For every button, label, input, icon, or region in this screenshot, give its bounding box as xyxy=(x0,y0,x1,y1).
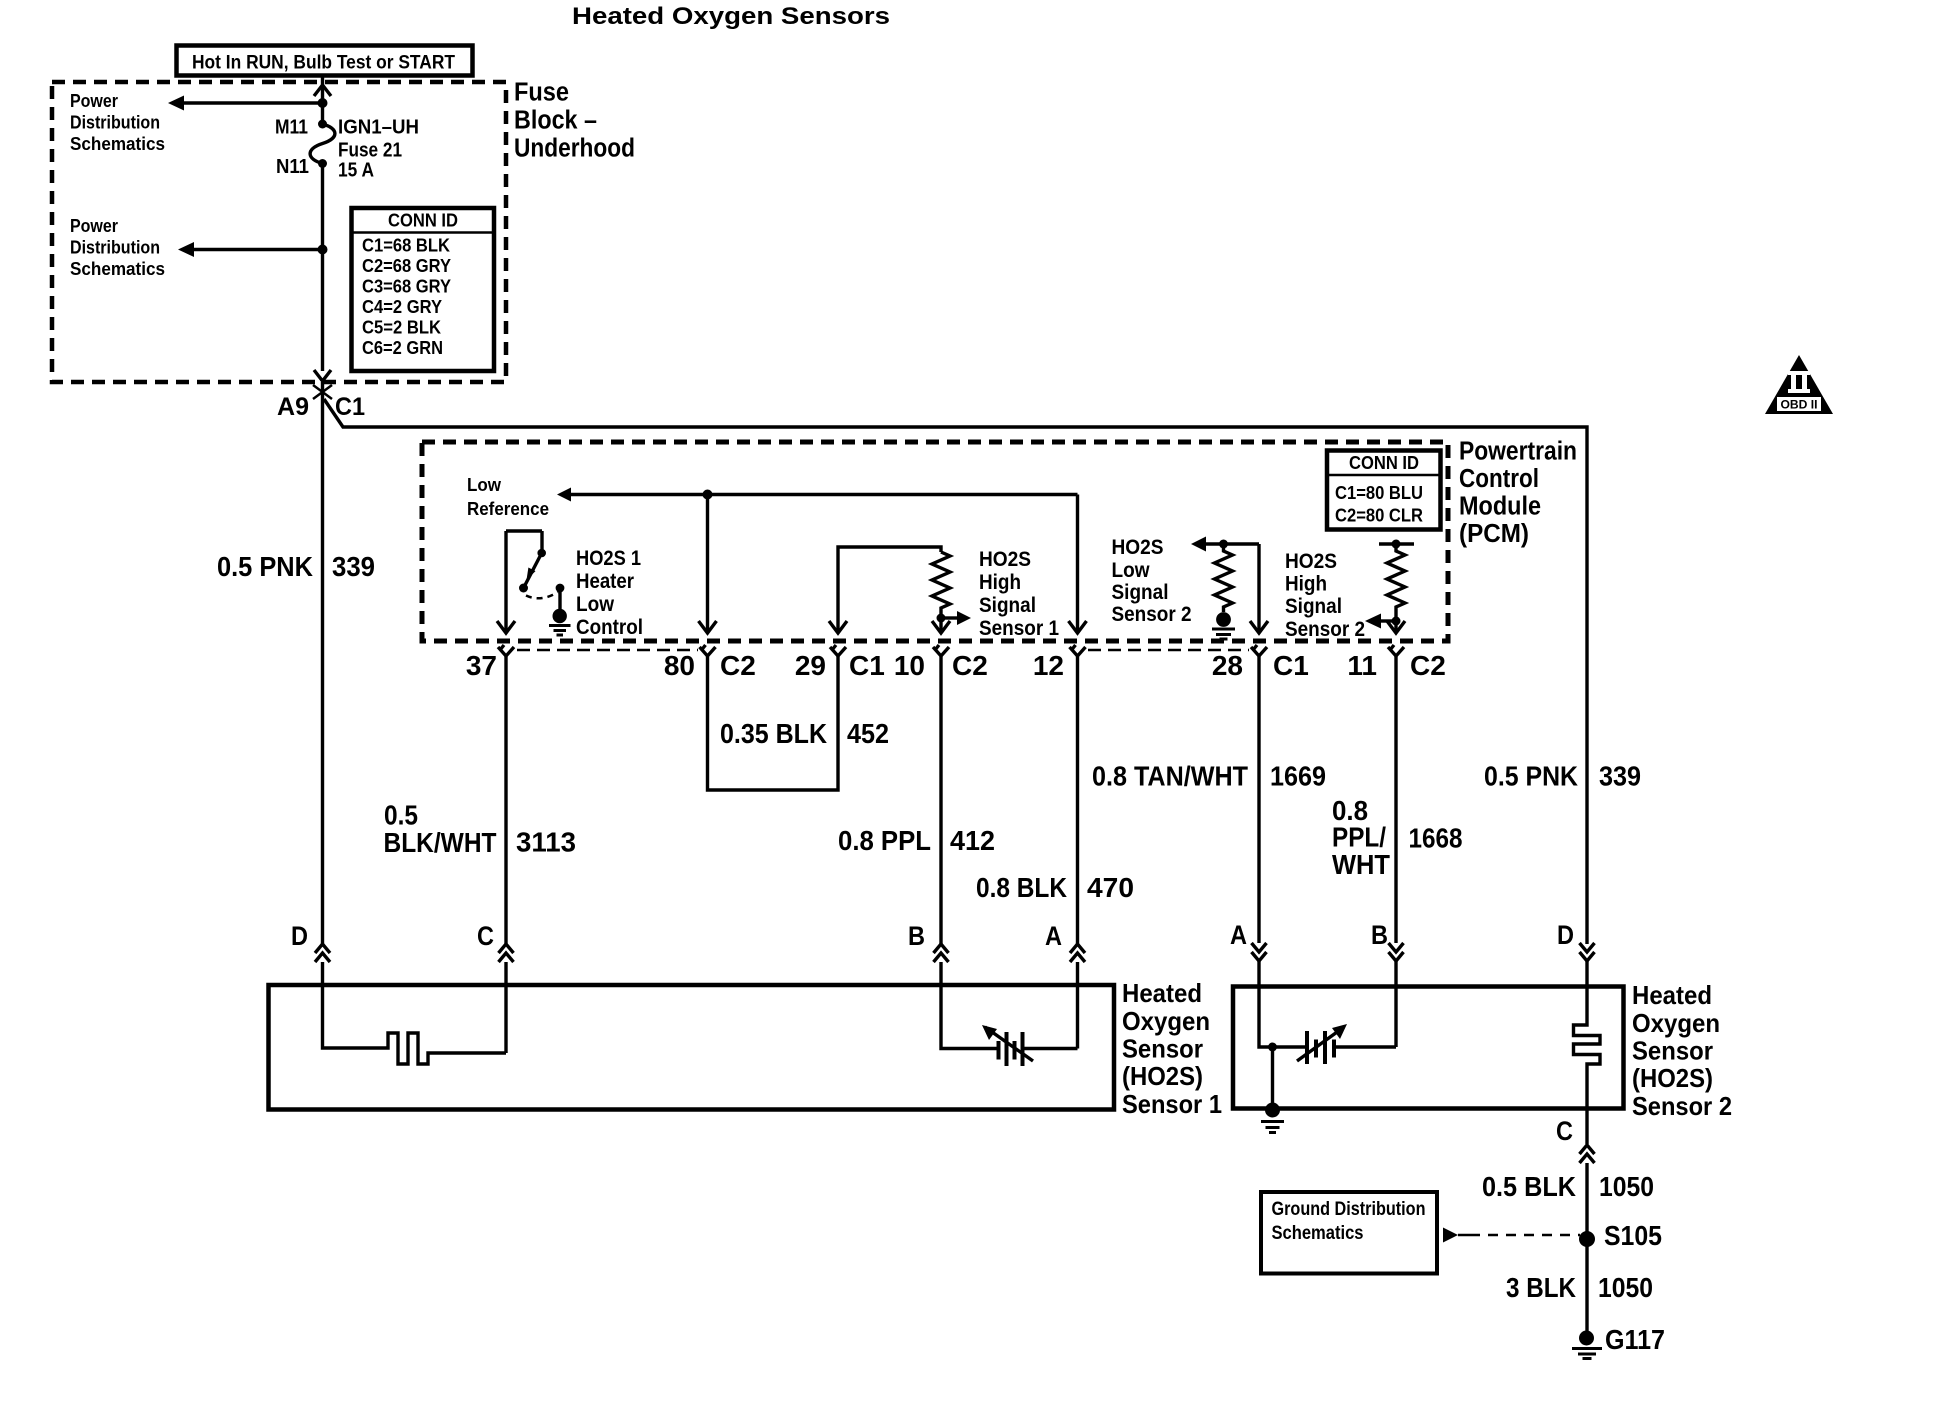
wire: battery feed from hot box into fuse block xyxy=(321,76,324,124)
svg-text:C3=68 GRY: C3=68 GRY xyxy=(362,277,451,297)
svg-text:0.5: 0.5 xyxy=(384,800,418,831)
wire: pin 10 to sensor 1 pin B xyxy=(939,656,942,944)
sensor 2 pin A inline connector chevrons xyxy=(1252,943,1267,961)
svg-text:Sensor 1: Sensor 1 xyxy=(979,617,1059,640)
node M11 xyxy=(318,120,327,129)
svg-text:Reference: Reference xyxy=(467,498,549,519)
svg-text:452: 452 xyxy=(847,718,889,749)
svg-text:CONN ID: CONN ID xyxy=(388,211,458,231)
svg-text:M11: M11 xyxy=(275,117,308,139)
node: sensor 2 internal ground junction xyxy=(1268,1043,1277,1052)
svg-text:Signal: Signal xyxy=(1112,581,1169,604)
sensor 1 pin B inline connector chevrons xyxy=(934,944,949,962)
wire: arrow to power distribution schematics (lower) xyxy=(193,248,323,251)
switch: HO2S 1 heater low control driver xyxy=(506,531,542,633)
svg-text:Heater: Heater xyxy=(576,570,634,593)
wire: pins 80-29 loop 0.35 BLK 452 xyxy=(708,656,839,790)
svg-text:0.35 BLK: 0.35 BLK xyxy=(720,718,827,749)
svg-text:Power: Power xyxy=(70,215,118,236)
wire: 0.5 PNK 339 down to sensor 1 pin D xyxy=(321,382,324,944)
connector row thin dashed lines xyxy=(517,649,698,652)
pin 28 arrow into connector xyxy=(1250,621,1268,633)
svg-text:Sensor 2: Sensor 2 xyxy=(1112,603,1192,626)
arrow: signal tap pointing left xyxy=(1380,619,1396,622)
svg-text:37: 37 xyxy=(466,650,497,681)
svg-text:High: High xyxy=(979,571,1021,594)
svg-text:C1=80 BLU: C1=80 BLU xyxy=(1335,483,1423,503)
svg-text:C: C xyxy=(477,921,494,951)
wire: pin 10 drop xyxy=(939,618,942,633)
arrow: ground distribution reference xyxy=(1443,1228,1458,1243)
svg-text:339: 339 xyxy=(1599,761,1641,792)
wire: fuse output down through fuse block xyxy=(321,164,324,372)
CONN ID table (fuse block) xyxy=(352,208,495,371)
svg-text:C2: C2 xyxy=(952,650,988,681)
wire: junction down to case ground xyxy=(1271,1047,1274,1108)
wire: sensor 2 pin C down to splice xyxy=(1585,1109,1588,1145)
svg-text:C1: C1 xyxy=(1273,650,1309,681)
svg-text:28: 28 xyxy=(1212,650,1243,681)
sensor 2 pin D inline connector chevrons xyxy=(1580,943,1595,961)
svg-text:1668: 1668 xyxy=(1409,823,1463,854)
svg-text:11: 11 xyxy=(1347,650,1377,681)
svg-text:Oxygen: Oxygen xyxy=(1122,1006,1210,1036)
svg-text:Sensor: Sensor xyxy=(1122,1034,1203,1064)
svg-text:0.8 BLK: 0.8 BLK xyxy=(976,872,1067,903)
pin 11 arrow into connector xyxy=(1387,621,1405,633)
svg-text:C2=68 GRY: C2=68 GRY xyxy=(362,256,451,276)
fuse block underhood dashed box xyxy=(52,82,506,382)
sensor 1 heater element xyxy=(323,985,507,1064)
svg-text:Low: Low xyxy=(1112,559,1151,582)
node: junction to power distribution (upper) xyxy=(318,98,328,108)
wire: low reference line with left arrow xyxy=(570,493,1078,496)
svg-text:Hot In RUN, Bulb Test or START: Hot In RUN, Bulb Test or START xyxy=(192,53,455,74)
pin 37 arrow into connector xyxy=(497,621,515,633)
svg-text:Power: Power xyxy=(70,90,118,111)
svg-text:C5=2 BLK: C5=2 BLK xyxy=(362,318,441,338)
svg-text:Schematics: Schematics xyxy=(70,258,165,279)
svg-text:Heated: Heated xyxy=(1122,978,1202,1008)
svg-text:10: 10 xyxy=(894,650,925,681)
svg-text:339: 339 xyxy=(332,551,375,582)
ground: sensor 2 case ground xyxy=(1265,1103,1280,1118)
svg-text:HO2S 1: HO2S 1 xyxy=(576,547,641,570)
sensor 1 pin D inline connector chevrons xyxy=(315,944,330,962)
svg-text:HO2S: HO2S xyxy=(1112,536,1164,559)
wire: pin 28 drop xyxy=(1257,544,1260,633)
svg-text:C1: C1 xyxy=(335,393,365,421)
svg-text:CONN ID: CONN ID xyxy=(1349,453,1419,473)
svg-text:0.5 BLK: 0.5 BLK xyxy=(1482,1171,1576,1202)
svg-text:B: B xyxy=(1371,920,1388,950)
svg-text:Block –: Block – xyxy=(514,107,597,135)
svg-text:High: High xyxy=(1285,573,1327,596)
svg-text:S105: S105 xyxy=(1604,1220,1662,1251)
svg-text:C1: C1 xyxy=(849,650,885,681)
wire: 0.5 BLK 1050 xyxy=(1585,1163,1588,1239)
svg-text:Sensor 1: Sensor 1 xyxy=(1122,1089,1222,1119)
svg-text:Sensor: Sensor xyxy=(1632,1036,1713,1066)
pin 10 Y terminal xyxy=(933,645,949,656)
svg-text:(PCM): (PCM) xyxy=(1459,520,1529,548)
sensing cell variable arrow xyxy=(1297,1027,1344,1061)
arrow: signal tap pointing right xyxy=(941,616,957,619)
svg-text:1050: 1050 xyxy=(1598,1272,1653,1303)
sensor 1 pin A inline connector chevrons xyxy=(1070,944,1085,962)
svg-text:0.5 PNK: 0.5 PNK xyxy=(217,551,313,582)
svg-text:Distribution: Distribution xyxy=(70,237,160,258)
sensor 1 sensing cell (variable battery) xyxy=(941,985,1078,1049)
svg-text:29: 29 xyxy=(795,650,826,681)
wire: pin 12 drop xyxy=(1076,495,1079,634)
wire: branch from C1 to right PNK feed xyxy=(324,399,1587,944)
svg-text:HO2S: HO2S xyxy=(979,548,1031,571)
svg-text:1050: 1050 xyxy=(1599,1171,1654,1202)
svg-text:WHT: WHT xyxy=(1332,849,1390,880)
svg-text:A: A xyxy=(1045,921,1062,951)
sensor 1 pin C inline connector chevrons xyxy=(499,944,514,962)
pin 12 arrow into connector xyxy=(1069,621,1087,633)
fuse IGN1-UH Fuse 21 15A (S-curve element) xyxy=(310,124,335,164)
svg-text:15 A: 15 A xyxy=(338,160,374,182)
svg-text:(HO2S): (HO2S) xyxy=(1122,1061,1203,1091)
CONN ID table (PCM) xyxy=(1327,451,1441,530)
svg-text:470: 470 xyxy=(1087,872,1134,903)
svg-text:C1=68 BLK: C1=68 BLK xyxy=(362,236,450,256)
svg-text:OBD II: OBD II xyxy=(1781,400,1818,412)
svg-text:Schematics: Schematics xyxy=(1272,1223,1364,1244)
switch actuation dashed curve xyxy=(526,592,558,598)
svg-text:PPL/: PPL/ xyxy=(1332,822,1386,853)
svg-text:G117: G117 xyxy=(1605,1324,1665,1355)
connector A9/C1 X symbol xyxy=(313,385,332,399)
resistor: HO2S high signal sensor 2 with top tee xyxy=(1379,542,1414,545)
wire: pin 37 to sensor 1 pin C xyxy=(504,656,507,944)
node N11 xyxy=(318,159,327,168)
svg-text:Powertrain: Powertrain xyxy=(1459,438,1577,466)
svg-text:Sensor 2: Sensor 2 xyxy=(1632,1091,1732,1121)
arrow: HO2S low signal sensor 2 tap pointing left xyxy=(1206,542,1259,545)
svg-text:Control: Control xyxy=(1459,465,1539,493)
svg-text:Fuse: Fuse xyxy=(514,79,569,107)
pin 80 Y terminal xyxy=(700,645,716,656)
PCM dashed box xyxy=(422,442,1448,641)
heated oxygen sensor 1 box xyxy=(269,985,1115,1110)
svg-text:80: 80 xyxy=(664,650,695,681)
resistor: HO2S low signal sensor 2 xyxy=(1215,544,1233,612)
svg-text:BLK/WHT: BLK/WHT xyxy=(384,827,497,858)
wire: switch to internal ground xyxy=(558,588,561,609)
svg-text:Distribution: Distribution xyxy=(70,112,160,133)
ground G117 xyxy=(1579,1331,1594,1346)
svg-text:Heated: Heated xyxy=(1632,980,1712,1010)
hot-in-run box xyxy=(177,46,473,76)
node: resistor 3 output junction xyxy=(1392,617,1401,626)
svg-text:Underhood: Underhood xyxy=(514,135,635,163)
wire: 3 BLK 1050 xyxy=(1585,1239,1588,1338)
svg-text:C6=2 GRN: C6=2 GRN xyxy=(362,338,443,358)
sensor 2 heater element xyxy=(1574,986,1601,1109)
resistor: HO2S high signal sensor 1 xyxy=(932,552,950,618)
ground distribution schematics box xyxy=(1261,1192,1437,1274)
wire: pin 11 drop xyxy=(1394,621,1397,633)
svg-text:Low: Low xyxy=(576,593,615,616)
svg-text:Low: Low xyxy=(467,474,502,495)
svg-text:Signal: Signal xyxy=(1285,595,1342,618)
svg-text:0.8 PPL: 0.8 PPL xyxy=(838,825,931,856)
pin 10 arrow into connector xyxy=(932,621,950,633)
svg-text:IGN1–UH: IGN1–UH xyxy=(338,117,419,139)
svg-text:C2: C2 xyxy=(1410,650,1446,681)
svg-text:12: 12 xyxy=(1033,650,1064,681)
svg-text:HO2S: HO2S xyxy=(1285,550,1337,573)
switch moving contact xyxy=(537,549,546,558)
pin 28 Y terminal xyxy=(1251,645,1267,656)
wires resuming below sensor1 chevrons xyxy=(323,962,1078,985)
wire: pin 29 loop top xyxy=(838,547,941,633)
pin 37 Y terminal xyxy=(498,645,514,656)
svg-text:A9: A9 xyxy=(277,393,309,421)
svg-text:N11: N11 xyxy=(276,156,309,178)
svg-text:0.8 TAN/WHT: 0.8 TAN/WHT xyxy=(1092,761,1248,792)
connector chevron at fuse block bottom border xyxy=(314,370,331,381)
ground: PCM internal ground (switch) xyxy=(553,609,567,623)
pin 29 arrow into connector xyxy=(829,621,847,633)
node S105 xyxy=(1579,1231,1595,1247)
sensor 2 sensing cell (variable battery) xyxy=(1259,986,1396,1047)
wires resuming below sensor2 chevrons xyxy=(1259,961,1587,986)
wire: arrow to power distribution schematics (upper) xyxy=(183,101,323,104)
wire: pin 12 to sensor 1 pin A xyxy=(1076,656,1079,944)
ground: PCM internal ground (resistor 2) xyxy=(1216,612,1231,627)
pin 11 Y terminal xyxy=(1388,645,1404,656)
node: resistor 2 junction xyxy=(1219,540,1228,549)
OBD II symbol triangle xyxy=(1765,355,1833,414)
svg-text:(HO2S): (HO2S) xyxy=(1632,1063,1713,1093)
sensor 2 pin B inline connector chevrons xyxy=(1389,943,1404,961)
pin 29 Y terminal xyxy=(830,645,846,656)
svg-text:Module: Module xyxy=(1459,493,1541,521)
svg-text:B: B xyxy=(908,921,925,951)
svg-text:Oxygen: Oxygen xyxy=(1632,1008,1720,1038)
svg-text:D: D xyxy=(1557,920,1574,950)
svg-text:1669: 1669 xyxy=(1270,761,1326,792)
heated oxygen sensor 2 box xyxy=(1233,987,1624,1109)
svg-text:Ground Distribution: Ground Distribution xyxy=(1272,1199,1426,1220)
svg-text:3 BLK: 3 BLK xyxy=(1506,1272,1576,1303)
svg-text:D: D xyxy=(291,921,308,951)
node: low reference junction at pin 80 xyxy=(703,490,713,500)
svg-text:3113: 3113 xyxy=(516,827,576,858)
svg-text:C4=2 GRY: C4=2 GRY xyxy=(362,297,442,317)
svg-text:Signal: Signal xyxy=(979,594,1036,617)
svg-text:412: 412 xyxy=(950,825,995,856)
pin 12 Y terminal xyxy=(1070,645,1086,656)
wire: pin 28 to sensor 2 pin A xyxy=(1257,656,1260,943)
node: resistor 1 output junction xyxy=(937,614,946,623)
svg-text:C2=80 CLR: C2=80 CLR xyxy=(1335,506,1423,526)
connector chevron at fuse block top border xyxy=(314,85,331,96)
svg-text:Fuse 21: Fuse 21 xyxy=(338,140,402,162)
connector chevrons at C (pointing up) xyxy=(1580,1145,1595,1163)
wire: pin 80 drop xyxy=(706,495,709,634)
svg-text:A: A xyxy=(1230,920,1247,950)
svg-text:Sensor 2: Sensor 2 xyxy=(1285,618,1365,641)
wire: pin 11 to sensor 2 pin B xyxy=(1394,656,1397,943)
svg-text:0.5 PNK: 0.5 PNK xyxy=(1484,761,1578,792)
svg-text:Schematics: Schematics xyxy=(70,133,165,154)
pin 80 arrow into connector xyxy=(699,621,717,633)
sensing cell variable arrow xyxy=(985,1027,1033,1061)
svg-text:Control: Control xyxy=(576,616,643,639)
svg-text:Heated Oxygen Sensors: Heated Oxygen Sensors xyxy=(572,3,890,30)
svg-text:C2: C2 xyxy=(720,650,756,681)
svg-text:C: C xyxy=(1556,1116,1573,1146)
node: junction to power distribution (lower) xyxy=(318,245,328,255)
